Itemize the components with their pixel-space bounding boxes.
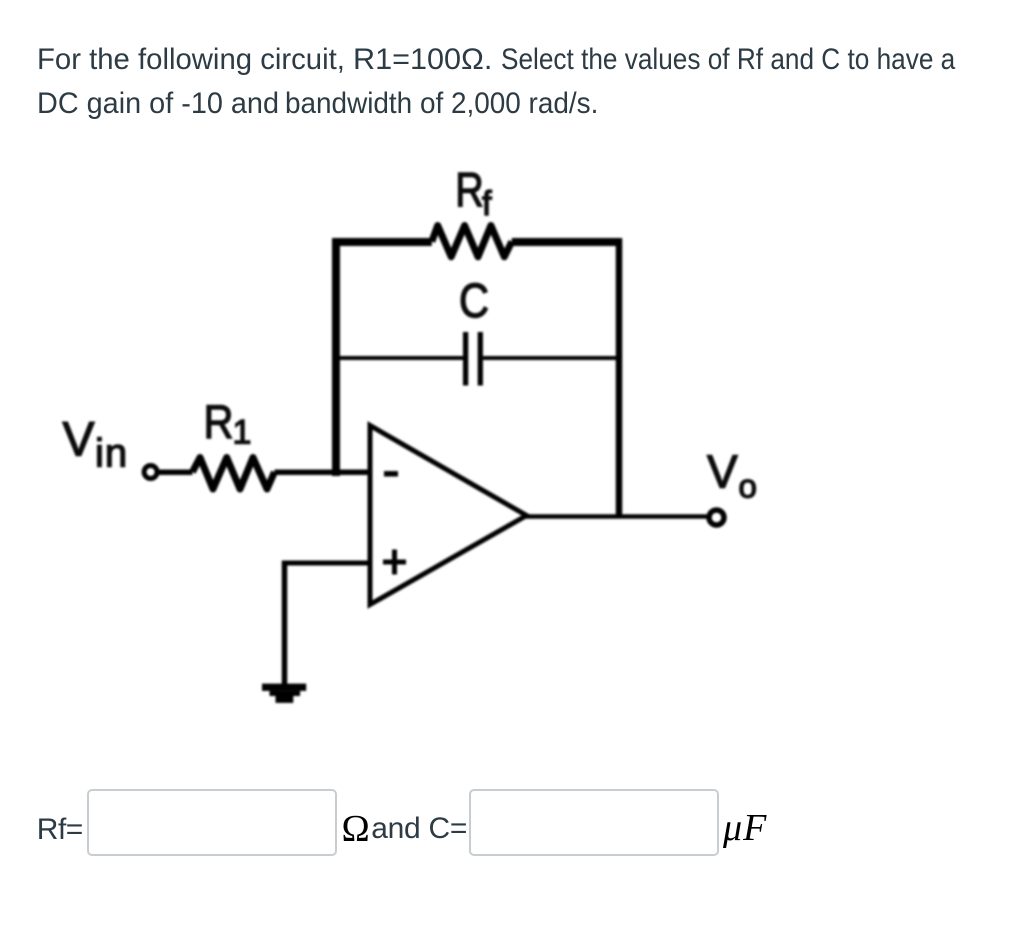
svg-text:V: V — [707, 446, 738, 498]
svg-text:1: 1 — [233, 414, 252, 452]
svg-text:C: C — [459, 275, 489, 328]
svg-text:R: R — [204, 395, 234, 448]
svg-text:o: o — [739, 468, 757, 505]
svg-text:f: f — [482, 185, 492, 223]
svg-text:V: V — [63, 414, 95, 467]
svg-text:R: R — [455, 165, 484, 218]
svg-text:in: in — [95, 432, 128, 476]
